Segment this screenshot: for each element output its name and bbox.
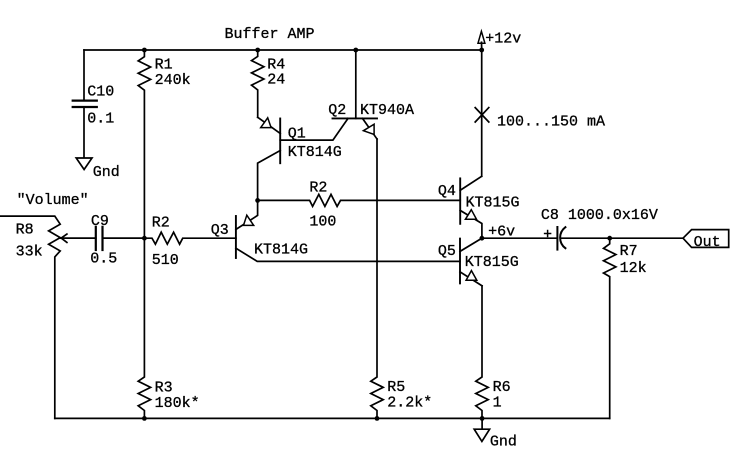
svg-text:180k*: 180k*	[155, 395, 200, 412]
svg-text:R8: R8	[16, 221, 34, 238]
svg-text:24: 24	[267, 72, 285, 89]
svg-text:Q4: Q4	[438, 183, 456, 200]
svg-text:Q2: Q2	[328, 102, 346, 119]
svg-text:Q3: Q3	[211, 222, 229, 239]
svg-text:R2: R2	[309, 179, 327, 196]
svg-text:12k: 12k	[620, 260, 647, 277]
svg-text:R6: R6	[493, 379, 511, 396]
svg-text:KT815G: KT815G	[465, 254, 519, 271]
svg-text:Gnd: Gnd	[490, 434, 517, 451]
svg-text:33k: 33k	[16, 243, 43, 260]
svg-text:Out: Out	[694, 234, 721, 251]
svg-text:R2: R2	[152, 215, 170, 232]
svg-text:KT814G: KT814G	[254, 242, 308, 259]
svg-text:C10: C10	[87, 84, 114, 101]
svg-text:Buffer AMP: Buffer AMP	[225, 26, 315, 43]
svg-text:+6v: +6v	[488, 223, 515, 240]
svg-text:100: 100	[309, 214, 336, 231]
svg-text:KT940A: KT940A	[360, 102, 414, 119]
svg-text:KT815G: KT815G	[466, 195, 520, 212]
svg-text:Q1: Q1	[288, 125, 306, 142]
svg-text:0.1: 0.1	[87, 111, 114, 128]
svg-text:C9: C9	[91, 213, 109, 230]
svg-text:R5: R5	[387, 379, 405, 396]
svg-text:C8 1000.0x16V: C8 1000.0x16V	[541, 207, 658, 224]
svg-text:"Volume": "Volume"	[17, 192, 89, 209]
svg-text:100...150 mA: 100...150 mA	[497, 114, 605, 131]
svg-text:240k: 240k	[155, 72, 191, 89]
svg-text:Q5: Q5	[438, 243, 456, 260]
svg-text:510: 510	[152, 252, 179, 269]
svg-text:+12v: +12v	[485, 31, 521, 48]
svg-text:1: 1	[493, 394, 502, 411]
svg-text:2.2k*: 2.2k*	[387, 394, 432, 411]
svg-text:KT814G: KT814G	[288, 144, 342, 161]
svg-text:0.5: 0.5	[90, 251, 117, 268]
svg-text:Gnd: Gnd	[93, 164, 120, 181]
svg-text:R7: R7	[620, 243, 638, 260]
